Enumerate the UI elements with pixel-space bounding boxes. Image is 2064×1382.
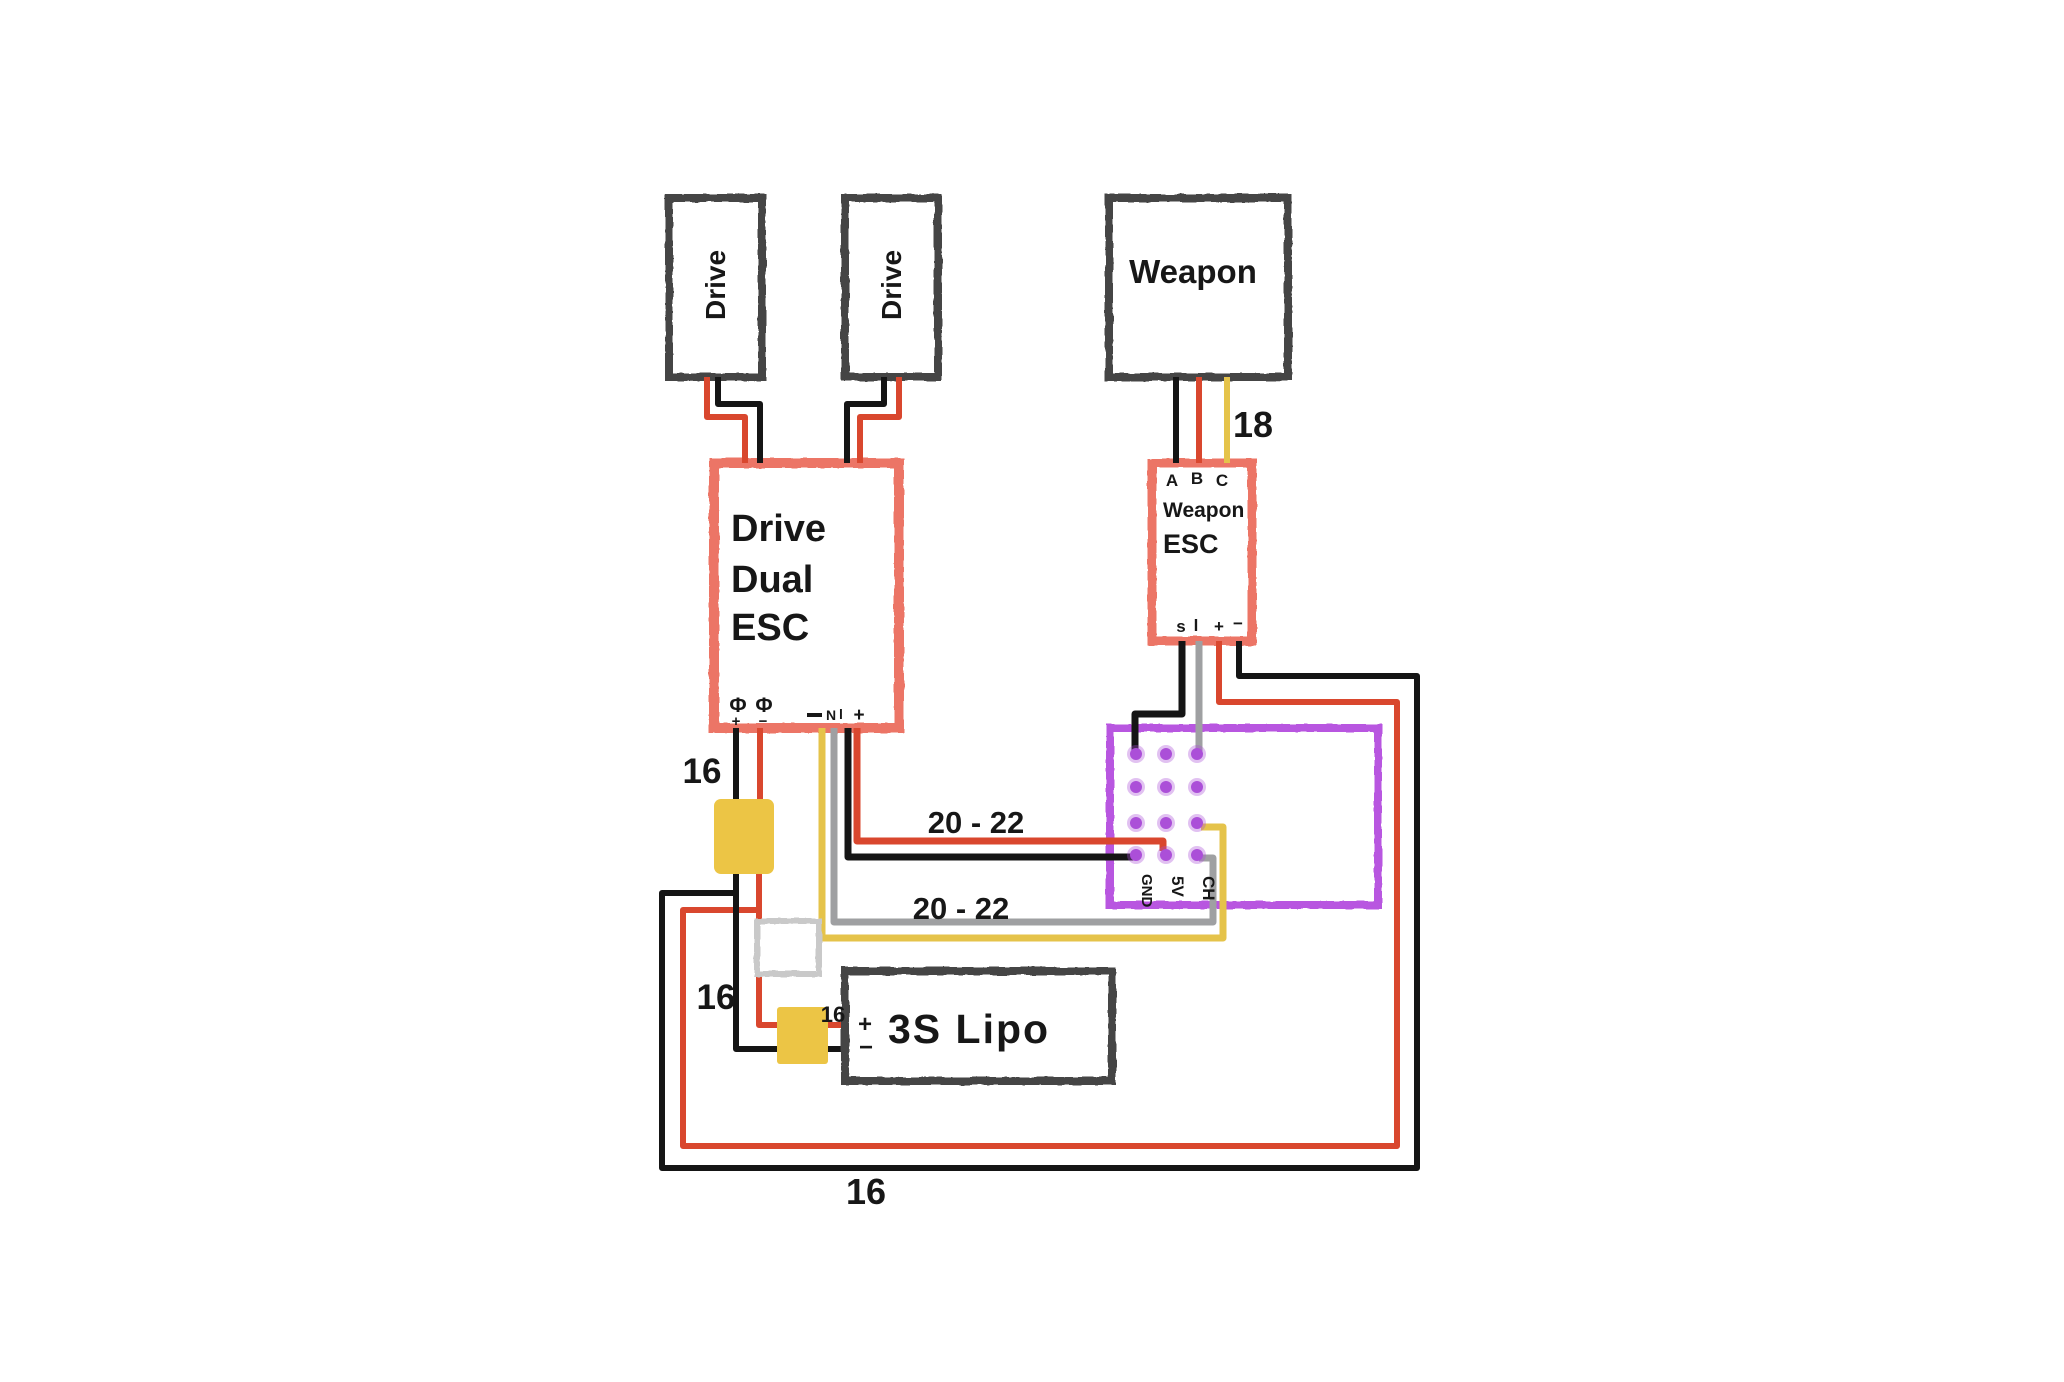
svg-text:+: + xyxy=(1214,617,1224,636)
svg-text:+: + xyxy=(853,705,864,726)
wire: connector to lipo plus red xyxy=(759,874,848,1025)
wire: weapon phase B red xyxy=(1196,377,1202,463)
wire: weapon ESC gray to receiver xyxy=(1196,641,1203,757)
wire: drive ESC yellow to receiver ch dot xyxy=(822,728,1223,938)
weapon motor box xyxy=(1109,198,1288,377)
wire: right drive black to ESC xyxy=(847,377,884,463)
wire: left drive black to ESC xyxy=(718,377,760,463)
wire: left drive red to ESC xyxy=(707,377,745,463)
svg-text:5V: 5V xyxy=(1168,876,1187,897)
drive ESC pin minus xyxy=(807,713,822,717)
svg-text:ESC: ESC xyxy=(1163,529,1219,559)
svg-text:−: − xyxy=(1233,614,1243,633)
svg-text:CH: CH xyxy=(1199,876,1218,901)
svg-text:3S Lipo: 3S Lipo xyxy=(888,1006,1050,1052)
wire: weapon ESC signal black to receiver xyxy=(1135,641,1182,756)
svg-text:−: − xyxy=(759,713,768,730)
wire: drive ESC black to receiver GND xyxy=(848,728,1134,857)
svg-text:−: − xyxy=(859,1034,873,1061)
svg-text:Weapon: Weapon xyxy=(1129,253,1257,290)
wire: weapon phase A black xyxy=(1173,377,1179,463)
wire: weapon ESC plus red loop to battery xyxy=(683,641,1397,1146)
svg-text:Drive: Drive xyxy=(876,250,907,320)
weapon ESC box U2 xyxy=(1152,463,1252,641)
wire: drive ESC battery red 16AWG xyxy=(757,728,763,799)
svg-text:16: 16 xyxy=(697,978,736,1017)
drive motor M2 box xyxy=(845,198,938,377)
svg-text:GND: GND xyxy=(1138,874,1155,908)
wire: drive ESC plus red to receiver 5V xyxy=(857,728,1163,851)
battery connector XT30 small yellow xyxy=(777,1007,828,1064)
drive dual ESC box U1 xyxy=(714,463,899,728)
white signal connector xyxy=(757,921,819,974)
receiver box RX xyxy=(1110,728,1378,905)
lipo battery box xyxy=(845,971,1112,1081)
svg-text:+: + xyxy=(732,713,741,730)
svg-text:l: l xyxy=(1194,616,1199,635)
svg-text:Weapon: Weapon xyxy=(1163,499,1244,522)
svg-text:B: B xyxy=(1191,469,1203,488)
svg-text:18: 18 xyxy=(1233,404,1273,445)
svg-text:ESC: ESC xyxy=(731,607,809,649)
receiver pin dots grid xyxy=(1127,745,1206,864)
svg-text:16: 16 xyxy=(846,1171,886,1212)
svg-text:A: A xyxy=(1166,471,1178,490)
wire: drive ESC battery black 16AWG xyxy=(733,728,739,799)
wire: weapon ESC minus black loop to battery xyxy=(662,641,1417,1168)
svg-text:N: N xyxy=(826,707,836,723)
battery connector XT60 big yellow xyxy=(714,799,774,874)
svg-text:l: l xyxy=(839,706,843,722)
wire: drive ESC gray to receiver CH xyxy=(834,728,1213,922)
svg-text:20 - 22: 20 - 22 xyxy=(913,891,1010,926)
wire: right drive red to ESC xyxy=(860,377,899,463)
svg-text:Drive: Drive xyxy=(731,508,826,550)
svg-text:s: s xyxy=(1176,617,1185,636)
svg-text:16: 16 xyxy=(821,1002,845,1027)
svg-text:C: C xyxy=(1216,471,1228,490)
svg-text:Drive: Drive xyxy=(700,250,731,320)
svg-text:20 - 22: 20 - 22 xyxy=(928,805,1025,840)
wire: connector to lipo minus black xyxy=(736,874,848,1049)
svg-text:Dual: Dual xyxy=(731,559,813,601)
drive motor M1 box xyxy=(669,198,762,377)
svg-text:16: 16 xyxy=(683,752,722,791)
wire: weapon phase C yellow xyxy=(1224,377,1230,463)
